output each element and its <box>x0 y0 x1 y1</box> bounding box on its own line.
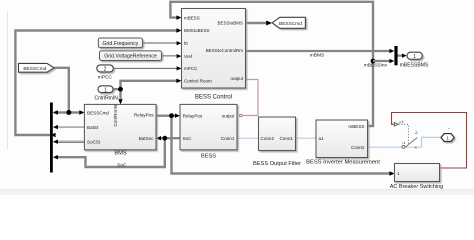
svg-text:Grid.Frequency: Grid.Frequency <box>103 41 139 47</box>
dotted control lines <box>399 124 409 144</box>
wire inverter Conn2 to breaker switch <box>368 146 403 148</box>
inport oval 2 mPCC <box>97 65 114 72</box>
svg-text:2: 2 <box>104 67 107 73</box>
arrowhead into AC Breaker Switching port 1 <box>389 171 394 175</box>
arrowhead into BESS RelayPos port <box>175 114 180 118</box>
svg-text:Conn1: Conn1 <box>221 136 235 141</box>
svg-text:BESS Output Filter: BESS Output Filter <box>253 161 301 167</box>
wire SoCSt (vector double line) <box>56 140 84 142</box>
wire output connection (pale maroon) <box>242 80 258 116</box>
svg-text:BatSt: BatSt <box>87 125 99 130</box>
svg-text:1: 1 <box>446 136 449 141</box>
svg-text:Conn2: Conn2 <box>261 136 275 141</box>
wire RelayPos net <box>156 116 393 174</box>
switch terminal circle <box>402 145 405 148</box>
hexagon port 1 <box>441 134 454 142</box>
mux2 bar (right) <box>394 46 397 65</box>
wire filter to inverter a1 <box>296 137 317 139</box>
arrowhead BESSCmd into bus creator <box>53 110 58 114</box>
arrowhead into mPCC port <box>177 66 182 70</box>
wire mBMS <box>246 50 393 52</box>
from tag BESSCmd (left) <box>19 63 55 72</box>
wire f0 <box>143 42 180 44</box>
svg-text:BESSCmd: BESSCmd <box>23 66 46 72</box>
svg-text:output: output <box>230 76 243 81</box>
block BESS Inverter Measurement <box>316 120 368 158</box>
block Grid.Frequency <box>98 38 142 48</box>
wire Vref <box>162 55 180 57</box>
control port triangle vT <box>394 123 398 127</box>
wire switch to hexagon port <box>405 137 441 147</box>
svg-text:mBESSInv: mBESSInv <box>364 63 388 69</box>
svg-text:SoC: SoC <box>117 163 127 169</box>
block BESS Control <box>182 9 246 89</box>
bus creator bar (left) <box>50 103 53 173</box>
svg-text:BESStoBMS: BESStoBMS <box>217 21 243 26</box>
arrowhead SoCSt into bus creator <box>53 140 58 144</box>
svg-text:BatSoc: BatSoc <box>139 136 155 141</box>
switch blade <box>405 138 417 148</box>
svg-text:BESStoControlRm: BESStoControlRm <box>206 48 244 53</box>
svg-text:BESSCmd: BESSCmd <box>279 21 302 27</box>
arrowhead BatSt into bus creator <box>53 125 58 129</box>
svg-text:RelayPos: RelayPos <box>183 114 203 119</box>
svg-text:CntrlRmIN: CntrlRmIN <box>113 105 118 126</box>
faint page margin line <box>7 12 9 150</box>
outport oval 1 mBESSBMS <box>407 52 422 59</box>
svg-text:mPCC: mPCC <box>98 75 113 81</box>
svg-text:Conn2: Conn2 <box>351 145 365 150</box>
junction mBESSInv <box>371 59 376 64</box>
svg-text:output: output <box>222 114 235 119</box>
arrowhead into goto tag <box>266 21 272 26</box>
black nub arrow at bus bar (y=135) <box>51 133 56 137</box>
wire mBESS bus loop (BESS Inverter Measurement.mBESS to BESS Control.mBESS) <box>170 2 373 126</box>
wire mPCC <box>113 67 179 69</box>
svg-text:-2: -2 <box>414 130 418 135</box>
svg-text:1: 1 <box>397 171 400 176</box>
arrowhead into BMS BESSCmd port <box>79 110 84 114</box>
svg-text:mPCC: mPCC <box>184 66 198 71</box>
svg-text:a1: a1 <box>319 136 325 141</box>
svg-text:Vref: Vref <box>184 54 193 59</box>
wire Conn1 to filter (pale blue) <box>237 137 259 139</box>
wire BatSt <box>56 126 84 128</box>
arrowhead into BMStoBESS port <box>176 28 181 32</box>
block AC Breaker Switching <box>395 164 440 182</box>
arrowhead into mBESS port <box>176 15 181 19</box>
svg-text:~: ~ <box>448 127 450 131</box>
arrowhead into BMS CntrlRmIN top port <box>118 99 122 104</box>
wire SoC loop net <box>55 138 180 167</box>
svg-text:f0: f0 <box>184 41 188 46</box>
arrowhead into outport oval <box>402 54 407 58</box>
svg-text:BESS Control: BESS Control <box>195 95 232 101</box>
svg-text:Grid.VoltageReference: Grid.VoltageReference <box>104 54 157 60</box>
wire mBESSInv branch to mux <box>373 60 392 62</box>
wire net A (bus creator output loop into BMStoBESS) <box>15 31 179 136</box>
wire mux2 output <box>398 54 404 56</box>
faint bottom band <box>0 189 474 190</box>
arrowhead mBESSInv into mux <box>389 59 394 63</box>
block BESS Output Filter <box>259 117 296 151</box>
junction BESSCmd <box>66 110 71 115</box>
svg-text:vT: vT <box>399 120 404 125</box>
svg-text:AC Breaker Switching: AC Breaker Switching <box>390 184 444 190</box>
svg-text:SoC: SoC <box>183 136 193 141</box>
svg-text:mBESS: mBESS <box>348 124 364 129</box>
block Grid.VoltageReference <box>100 51 162 61</box>
arrowhead into f0 port <box>177 41 182 45</box>
svg-text:BESS Inverter Measurement: BESS Inverter Measurement <box>306 159 380 165</box>
wire BESStoBMS to goto <box>246 22 269 24</box>
wire CntrlRmIN net <box>113 81 180 103</box>
svg-text:1: 1 <box>104 88 107 94</box>
block BESS <box>180 104 237 149</box>
svg-text:Conn1: Conn1 <box>279 136 293 141</box>
svg-text:SoCSt: SoCSt <box>87 140 101 145</box>
arrowhead into BMS BatSoc port <box>156 136 161 140</box>
svg-text:Control Room: Control Room <box>184 79 212 84</box>
svg-text:BMS: BMS <box>114 151 127 157</box>
svg-text:RelayPos: RelayPos <box>134 113 154 118</box>
svg-text:mBMS: mBMS <box>310 52 324 58</box>
svg-text:mBESS: mBESS <box>184 15 200 20</box>
wire red breaker control loop <box>392 113 467 169</box>
port circle BESS.output <box>240 114 243 117</box>
arrowhead SoC into bus creator <box>53 155 58 159</box>
svg-text:-1: -1 <box>402 140 406 145</box>
svg-text:1: 1 <box>413 54 416 60</box>
svg-text:BMStoBESS: BMStoBESS <box>184 28 210 33</box>
svg-text:BESSCmd: BESSCmd <box>87 110 109 115</box>
svg-text:x: x <box>415 145 417 150</box>
block BMS <box>84 104 156 149</box>
svg-text:CntrlRmIN: CntrlRmIN <box>95 95 119 101</box>
svg-text:mBESSBMS: mBESSBMS <box>400 63 429 69</box>
arrowhead mBMS into mux <box>389 49 394 53</box>
goto tag BESSCmd (top right) <box>272 17 305 28</box>
arrowhead into Control Room port <box>176 79 181 83</box>
svg-text:BESS: BESS <box>201 153 216 159</box>
arrowhead into Vref port <box>177 54 182 58</box>
wire from-tag BESSCmd net <box>54 68 83 113</box>
inport oval 1 CntrlRmIN <box>98 86 113 93</box>
